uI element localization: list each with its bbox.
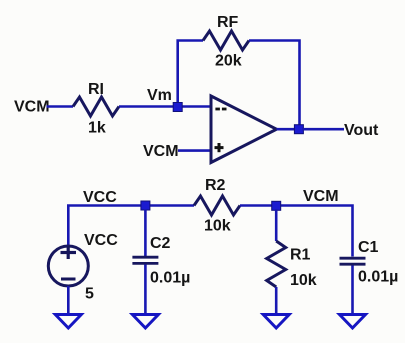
svg-text:10k: 10k [290, 272, 317, 289]
wire node Vm to op-amp inverting input [179, 105, 211, 108]
svg-text:Vout: Vout [344, 122, 379, 139]
wire VCM to op-amp non-inverting input [178, 149, 211, 152]
wire node Vm up to RF [178, 41, 203, 105]
op-amp U1 [211, 96, 277, 163]
svg-text:VCM: VCM [14, 99, 50, 116]
ground (below R1) [263, 315, 289, 329]
wire op-amp output to node [277, 128, 297, 131]
wire RF to output node [249, 41, 300, 127]
svg-text:VCC: VCC [84, 232, 118, 249]
svg-text:RF: RF [217, 14, 239, 31]
svg-text:C2: C2 [150, 235, 171, 252]
wire node VCM down to R1 [275, 209, 278, 241]
resistor R2 [194, 196, 240, 215]
junction node output [294, 125, 303, 134]
resistor RF [203, 31, 249, 50]
junction node VCM/R1 [272, 201, 281, 210]
junction node VCC/C2 [141, 201, 150, 210]
capacitor C1 [340, 258, 366, 264]
svg-text:0.01µ: 0.01µ [150, 270, 190, 287]
resistor R1 [267, 241, 286, 287]
wire output node to Vout [302, 128, 344, 131]
op-amp inverting input marker [215, 108, 226, 111]
wire R1 to ground [275, 287, 278, 314]
svg-text:VCM: VCM [143, 143, 179, 160]
svg-text:VCC: VCC [83, 189, 117, 206]
svg-text:R1: R1 [290, 247, 311, 264]
voltage source minus marker [61, 278, 76, 281]
wire R2 to C1 corner [240, 206, 353, 257]
wire source to ground [67, 286, 70, 314]
voltage source plus marker [61, 246, 77, 259]
svg-text:Vm: Vm [147, 87, 172, 104]
svg-text:VCM: VCM [303, 188, 339, 205]
ground (below source) [55, 315, 81, 329]
wire VCM to RI [47, 105, 74, 108]
svg-text:RI: RI [88, 81, 104, 98]
wire VCC rail left [68, 206, 194, 247]
resistor RI [73, 97, 119, 116]
wire RI to node Vm [119, 105, 176, 108]
svg-text:0.01µ: 0.01µ [358, 269, 398, 286]
svg-text:C1: C1 [358, 239, 379, 256]
svg-text:R2: R2 [205, 177, 226, 194]
ground (below C2) [132, 315, 158, 329]
op-amp non-inverting input marker [215, 143, 224, 152]
svg-text:10k: 10k [204, 218, 231, 235]
junction node Vm [173, 103, 182, 112]
capacitor C2 [132, 257, 158, 263]
svg-text:1k: 1k [88, 120, 106, 137]
wire C2 to ground [144, 265, 147, 315]
wire C1 to ground [351, 266, 354, 315]
voltage source VCC [48, 246, 88, 286]
svg-text:5: 5 [85, 286, 94, 303]
wire node to C2 [144, 209, 147, 256]
svg-text:20k: 20k [215, 53, 242, 70]
ground (below C1) [340, 315, 366, 329]
